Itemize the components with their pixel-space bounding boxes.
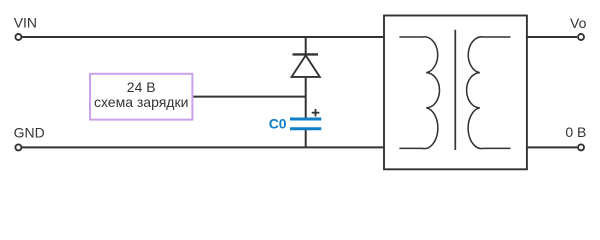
svg-text:C0: C0 [269, 116, 287, 132]
svg-text:0 В: 0 В [565, 124, 586, 140]
svg-text:схема зарядки: схема зарядки [94, 94, 188, 110]
svg-text:VIN: VIN [14, 15, 37, 31]
svg-text:Vo: Vo [570, 15, 587, 31]
svg-text:24 В: 24 В [127, 79, 156, 95]
svg-text:GND: GND [14, 124, 45, 140]
